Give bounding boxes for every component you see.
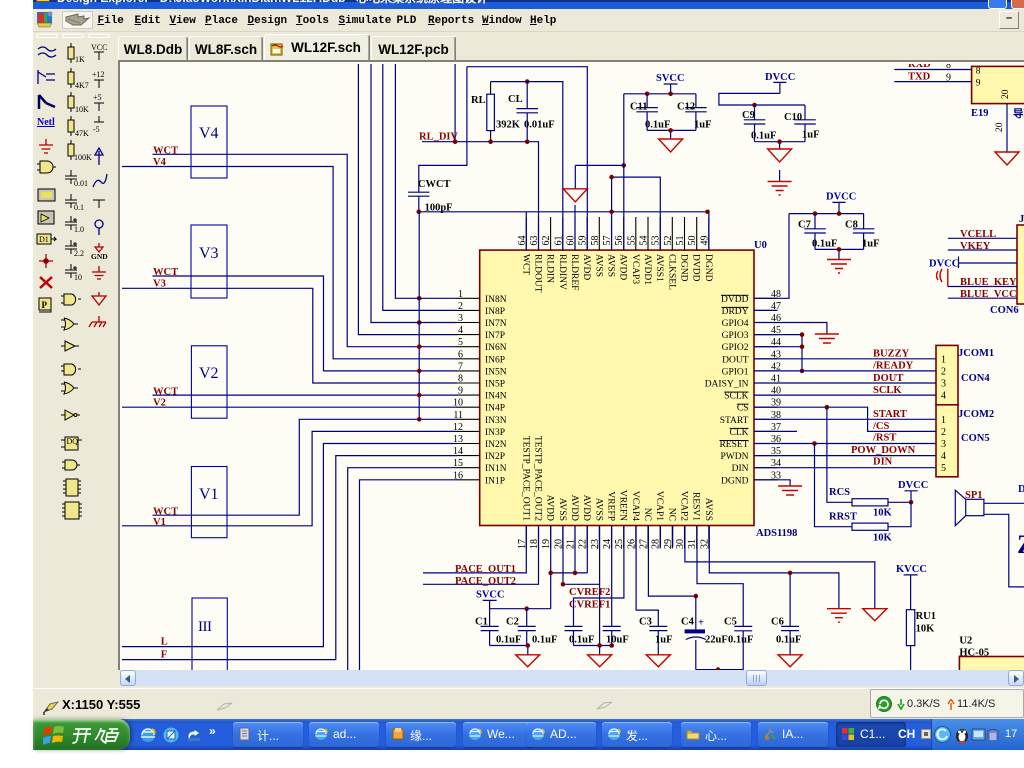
tool icon bus xyxy=(39,95,55,109)
svg-text:AVSS: AVSS xyxy=(593,498,603,521)
svg-text:NC: NC xyxy=(666,508,676,521)
svg-text:6: 6 xyxy=(458,349,463,360)
tool icon and small xyxy=(62,460,80,470)
svg-text:GND: GND xyxy=(91,252,108,261)
wire pin37 stub xyxy=(754,430,797,432)
svg-text:IN5P: IN5P xyxy=(485,380,505,390)
node junction gnd jog xyxy=(622,163,627,168)
ground earth right of C6 xyxy=(827,609,851,623)
svg-text:0.1uF: 0.1uF xyxy=(812,239,837,250)
svg-text:+5: +5 xyxy=(93,93,102,102)
svg-text:IN8P: IN8P xyxy=(485,307,505,317)
tool icon cap 0.01 xyxy=(65,170,88,188)
tool icon resistor 4K7 xyxy=(68,68,89,90)
svg-text:5: 5 xyxy=(941,463,946,474)
node junction pin45 xyxy=(800,332,805,337)
power port DVCC top xyxy=(765,72,795,93)
svg-text:AVDD: AVDD xyxy=(581,254,591,280)
svg-text:DOUT: DOUT xyxy=(722,355,749,365)
svg-text:BUZZY: BUZZY xyxy=(873,349,910,360)
svg-text:GPIO3: GPIO3 xyxy=(722,331,749,341)
svg-text:5: 5 xyxy=(458,337,463,348)
wire C11/C12 bottom rail xyxy=(647,130,696,139)
wire pin17 PACE_OUT1 xyxy=(423,526,526,573)
tool icon cap 2.2 xyxy=(65,240,84,258)
wire pin35 to CON5.4 xyxy=(754,455,936,457)
svg-text:3: 3 xyxy=(458,313,463,324)
capacitor C6 0.1uF xyxy=(709,526,839,655)
svg-text:2.2: 2.2 xyxy=(74,249,84,258)
node junction pin57 upper xyxy=(609,175,614,180)
svg-text:START: START xyxy=(720,416,749,426)
wire pin29 stub xyxy=(672,526,674,548)
ground power-gnd under C3 xyxy=(646,655,670,667)
tool icon resistor 47K xyxy=(68,116,89,138)
tool icon power gnd tri xyxy=(92,292,106,305)
tool icon or gate xyxy=(61,318,78,330)
svg-text:NC: NC xyxy=(642,508,652,521)
svg-text:2: 2 xyxy=(941,367,946,378)
wire pin3 riser xyxy=(371,64,457,323)
svg-text:51: 51 xyxy=(675,236,686,246)
svg-text:JCOM2: JCOM2 xyxy=(958,409,994,420)
tool icon cap 10 xyxy=(65,264,82,282)
node junction CL top xyxy=(525,79,530,84)
tool icon cap 1.0 xyxy=(65,216,84,234)
capacitor C7 0.1uF xyxy=(798,214,837,250)
svg-text:CON6: CON6 xyxy=(990,305,1019,316)
svg-text:4: 4 xyxy=(941,451,946,462)
svg-text:GPIO2: GPIO2 xyxy=(722,343,749,353)
wire RL/CL top rail to pin61 xyxy=(491,82,563,251)
wire VKEY row to CON6 xyxy=(948,249,1017,251)
wire DVCC rail C7/C8 xyxy=(789,213,864,215)
svg-text:KVCC: KVCC xyxy=(896,564,927,575)
tool icon earth gnd xyxy=(92,266,106,279)
svg-text:AVSS1: AVSS1 xyxy=(654,254,664,282)
wire pins57/53 link xyxy=(612,177,661,250)
capacitor C5 0.1uF xyxy=(697,526,753,646)
tool icon and gate xyxy=(61,294,81,305)
resistor RL 392K xyxy=(471,82,521,142)
svg-text:Z: Z xyxy=(1017,530,1024,559)
node junction pin49 corner xyxy=(705,210,710,215)
svg-text:V1: V1 xyxy=(153,517,166,528)
svg-text:1uF: 1uF xyxy=(862,239,880,250)
tool icon +5 xyxy=(93,93,104,111)
svg-text:CS: CS xyxy=(737,404,749,414)
svg-text:AVSS: AVSS xyxy=(593,254,603,277)
tool icon wave xyxy=(93,174,107,187)
svg-text:VKEY: VKEY xyxy=(960,241,991,252)
tool icon part D1 xyxy=(37,234,56,244)
wire pins20/23 AVSS tie xyxy=(563,526,600,646)
ground earth below DVCC xyxy=(768,170,792,195)
svg-text:GPIO4: GPIO4 xyxy=(722,319,749,329)
svg-text:VREFN: VREFN xyxy=(618,490,628,521)
svg-text:DQ: DQ xyxy=(67,437,79,446)
svg-text:0.1uF: 0.1uF xyxy=(751,131,776,142)
tool icon gate part xyxy=(37,161,56,173)
wire BLUE_KEY row to CON6 xyxy=(948,286,1017,288)
tool icon bar xyxy=(93,200,105,208)
svg-text:IN2N: IN2N xyxy=(485,440,507,450)
svg-text:SVCC: SVCC xyxy=(476,590,505,601)
svg-text:C5: C5 xyxy=(724,617,737,628)
svg-text:VCAP2: VCAP2 xyxy=(679,491,689,521)
svg-text:PACE_OUT2: PACE_OUT2 xyxy=(455,576,516,587)
tool icon GND arrow xyxy=(91,243,108,261)
tool icon bus entry xyxy=(38,70,55,84)
svg-text:III: III xyxy=(198,619,212,635)
tool icon diode pack xyxy=(38,211,54,224)
power port SVCC top xyxy=(656,73,685,94)
node junction C9/C10 gnd xyxy=(777,139,782,144)
node junction RL bottom xyxy=(488,139,493,144)
op-amp U0 ADS1198 IC body xyxy=(480,240,798,539)
node junction pin42 xyxy=(800,369,805,374)
node V4 electrode box xyxy=(191,106,227,178)
svg-text:IN4P: IN4P xyxy=(485,404,505,414)
svg-text:V2: V2 xyxy=(199,365,219,382)
wire RL_DIV riser xyxy=(454,64,456,142)
svg-text:AVDD: AVDD xyxy=(618,254,628,280)
svg-text:0.1uF: 0.1uF xyxy=(645,119,670,130)
wire pin2 riser xyxy=(383,64,457,310)
wire pins19/21/22 AVDD tie xyxy=(551,526,588,609)
tool icon resistor 100K xyxy=(68,140,92,162)
svg-text:32: 32 xyxy=(699,539,710,549)
node junction C11 top xyxy=(645,92,650,97)
svg-text:1uF: 1uF xyxy=(655,635,673,646)
node junction SVCC bar xyxy=(668,92,673,97)
svg-text:50: 50 xyxy=(687,236,698,246)
svg-text:IN7P: IN7P xyxy=(485,331,505,341)
wire pin47 stub xyxy=(754,309,778,311)
node junction C11/C12 gnd xyxy=(668,128,673,133)
svg-text:D1: D1 xyxy=(39,235,49,244)
capacitor CVREF2 0.1uF xyxy=(565,526,624,646)
svg-text:-5: -5 xyxy=(93,125,100,134)
svg-text:TXD: TXD xyxy=(908,72,931,83)
svg-text:+: + xyxy=(698,618,704,629)
tool icon power gnd xyxy=(39,139,53,153)
language + tray xyxy=(898,727,915,741)
tool icon buffer xyxy=(61,341,79,351)
svg-text:V2: V2 xyxy=(153,398,166,409)
svg-text:WCT: WCT xyxy=(520,254,530,275)
wire pin56 SVCC riser xyxy=(623,94,625,250)
node junction RCS right xyxy=(909,500,914,505)
ground earth at pin33 xyxy=(778,486,802,495)
svg-text:CVREF1: CVREF1 xyxy=(569,600,610,611)
transistor SP1 speaker xyxy=(955,490,1024,587)
wire pin16 down to sheet edge xyxy=(360,480,458,672)
svg-text:VCAP1: VCAP1 xyxy=(654,491,664,521)
node junction C9 top xyxy=(752,103,757,108)
svg-text:RLDOUT: RLDOUT xyxy=(533,254,543,293)
svg-text:VREFP: VREFP xyxy=(606,491,616,521)
svg-text:9: 9 xyxy=(976,79,981,89)
wire BLUE_VCC row to CON6 xyxy=(948,297,1017,299)
node junction pin20 xyxy=(561,582,566,587)
wire pin41 to CON4.3 xyxy=(754,382,936,384)
node junction C4 top xyxy=(694,594,699,599)
svg-text:10K: 10K xyxy=(916,624,936,635)
tool icon resistor 10K xyxy=(68,92,89,114)
toolbar column handles xyxy=(37,34,109,38)
connector CON4 xyxy=(936,345,994,404)
capacitor C9 0.1uF xyxy=(742,105,776,142)
svg-text:IN8N: IN8N xyxy=(485,295,507,305)
capacitor C1 0.1uF xyxy=(475,609,521,646)
node junction CWCT/WCT xyxy=(417,210,422,215)
svg-text:IN7N: IN7N xyxy=(485,319,507,329)
svg-text:DVDD: DVDD xyxy=(721,295,749,305)
svg-text:AVSS: AVSS xyxy=(703,498,713,521)
svg-text:TESTP_PACE_OUT2: TESTP_PACE_OUT2 xyxy=(533,436,543,521)
svg-text:J1: J1 xyxy=(1019,214,1024,225)
svg-text:CON5: CON5 xyxy=(961,433,990,444)
ground chassis marks at CON6 xyxy=(937,269,948,287)
svg-text:WCT: WCT xyxy=(153,267,178,278)
svg-text:/CS: /CS xyxy=(872,421,890,432)
svg-text:V3: V3 xyxy=(153,279,166,290)
svg-text:P: P xyxy=(42,300,48,310)
start button xyxy=(33,719,130,750)
svg-text:/RST: /RST xyxy=(872,433,896,444)
svg-text:RU1: RU1 xyxy=(916,611,936,622)
wire C7/C8 bottom rail xyxy=(815,249,864,259)
svg-text:8: 8 xyxy=(458,374,463,385)
svg-text:IN3N: IN3N xyxy=(485,416,507,426)
node E19 pin numbers xyxy=(946,60,951,83)
svg-text:RCS: RCS xyxy=(829,487,850,498)
svg-text:7: 7 xyxy=(458,361,463,372)
tool icon arrow up xyxy=(95,148,103,165)
U0 top pins 64-49 with numbers and names xyxy=(517,217,713,293)
capacitor C2 0.1uF xyxy=(506,609,557,646)
svg-text:10K: 10K xyxy=(873,533,893,544)
tool icon ic16 xyxy=(62,502,82,519)
IC U2 HC-05 bottom right xyxy=(959,636,1024,673)
svg-text:1K: 1K xyxy=(75,55,85,64)
wire pin18 PACE_OUT2 xyxy=(423,526,539,585)
svg-text:CON4: CON4 xyxy=(961,373,990,384)
wire RL_DIV rail to pin63 xyxy=(422,142,539,250)
svg-text:VCAP3: VCAP3 xyxy=(630,254,640,284)
svg-text:WCT: WCT xyxy=(153,386,178,397)
svg-text:V4: V4 xyxy=(153,157,167,168)
svg-text:DVCC: DVCC xyxy=(765,72,795,83)
svg-text:AVDD: AVDD xyxy=(569,495,579,521)
svg-text:DV: DV xyxy=(1018,484,1024,495)
svg-text:C7: C7 xyxy=(798,220,811,231)
wire E19 pin20 down xyxy=(1006,104,1008,152)
svg-text:DVCC: DVCC xyxy=(826,192,856,203)
svg-text:AVDD1: AVDD1 xyxy=(642,254,652,285)
svg-text:DVCC: DVCC xyxy=(898,480,928,491)
svg-text:VCELL: VCELL xyxy=(960,229,996,240)
svg-text:RXD: RXD xyxy=(908,64,931,70)
svg-text:1uF: 1uF xyxy=(694,119,712,130)
capacitor 10uF on pin24 xyxy=(603,526,629,646)
svg-text:C4: C4 xyxy=(681,617,695,628)
wire C9/C10 bottom rail xyxy=(755,142,806,149)
svg-text:RL: RL xyxy=(471,95,486,106)
svg-text:U2: U2 xyxy=(959,636,972,647)
svg-text:8: 8 xyxy=(976,67,981,77)
svg-text:10uF: 10uF xyxy=(606,635,629,646)
svg-text:DOUT: DOUT xyxy=(873,373,903,384)
wire VCELL row to CON6 xyxy=(948,237,1017,239)
svg-text:20: 20 xyxy=(1001,89,1011,99)
tool icon VCC xyxy=(91,43,107,60)
svg-text:58: 58 xyxy=(590,236,601,246)
svg-text:CLKSEL: CLKSEL xyxy=(666,254,676,290)
tool icon wire xyxy=(38,47,56,57)
svg-text:BLUE_KEY: BLUE_KEY xyxy=(960,277,1017,288)
svg-text:IN6P: IN6P xyxy=(485,355,505,365)
wire WCT horizontal to pins 64,50,49 xyxy=(419,212,709,250)
resistor RU1 10K xyxy=(906,610,936,672)
svg-text:RLDIN: RLDIN xyxy=(545,254,555,283)
node junction pin23 gnd xyxy=(597,643,602,648)
svg-text:CWCT: CWCT xyxy=(418,179,451,190)
svg-text:C10: C10 xyxy=(784,112,802,123)
svg-text:8: 8 xyxy=(946,64,951,71)
svg-text:C8: C8 xyxy=(845,220,858,231)
wire pin33 to earth xyxy=(754,480,790,486)
wire L to pin13 xyxy=(122,444,457,647)
svg-text:10K: 10K xyxy=(75,105,89,114)
svg-text:CVREF2: CVREF2 xyxy=(569,587,610,598)
svg-text:Netl: Netl xyxy=(37,117,55,128)
svg-text:0.01uF: 0.01uF xyxy=(524,119,555,130)
svg-text:+12: +12 xyxy=(92,70,105,79)
wire pin42 to CON4.2 xyxy=(754,370,936,372)
svg-text:WCT: WCT xyxy=(153,146,178,157)
node junction pin19 xyxy=(548,571,553,576)
power port KVCC xyxy=(896,564,927,610)
wire SVCC rail xyxy=(624,93,696,95)
svg-text:55: 55 xyxy=(626,236,637,246)
svg-text:AVSS: AVSS xyxy=(557,498,567,521)
svg-text:BLUE_VCC: BLUE_VCC xyxy=(960,289,1017,300)
svg-text:1: 1 xyxy=(458,289,463,300)
wire C4/C5 gnd rail xyxy=(696,631,743,670)
node junction RRST tap xyxy=(812,441,817,446)
ground earth at pin46 xyxy=(815,334,839,343)
svg-text:SCLK: SCLK xyxy=(724,392,748,402)
svg-text:导联: 导联 xyxy=(1013,107,1024,120)
node junction C2 bottom xyxy=(526,643,531,648)
svg-text:TESTP_PACE_OUT1: TESTP_PACE_OUT1 xyxy=(520,436,530,521)
svg-text:IN5N: IN5N xyxy=(485,367,507,377)
wire pin40 to CON4.4 xyxy=(754,394,936,396)
tool icon dff xyxy=(61,437,82,450)
svg-text:WCT: WCT xyxy=(153,506,178,517)
svg-text:10: 10 xyxy=(74,273,82,282)
svg-text:1uF: 1uF xyxy=(802,130,820,141)
svg-text:62: 62 xyxy=(541,236,552,246)
svg-text:54: 54 xyxy=(639,236,650,246)
node junction C7 top xyxy=(813,211,818,216)
capacitor C8 1uF xyxy=(845,214,880,250)
ground power-gnd left of C11 xyxy=(563,165,624,201)
svg-text:4: 4 xyxy=(941,391,946,402)
svg-text:AVDD: AVDD xyxy=(581,495,591,521)
node junction RL_DIV riser xyxy=(453,139,458,144)
wire DVCC to C9/C10 rail xyxy=(719,93,805,105)
node junction CL bottom xyxy=(525,139,530,144)
connector CON5 xyxy=(936,405,994,477)
svg-text:DAISY_IN: DAISY_IN xyxy=(705,380,749,390)
svg-text:RL_DIV: RL_DIV xyxy=(419,132,459,143)
svg-text:E19: E19 xyxy=(971,108,989,119)
ground power-gnd under C6 xyxy=(778,655,802,667)
node V3 electrode box xyxy=(191,225,227,298)
resistor RRST 10K xyxy=(815,444,912,544)
wire V4 net to pin6 xyxy=(122,167,457,359)
svg-text:F: F xyxy=(161,650,167,661)
node junction C2 top xyxy=(524,606,529,611)
wire mid gnd rail xyxy=(574,646,612,655)
svg-text:0.1uF: 0.1uF xyxy=(532,635,557,646)
svg-text:0.01: 0.01 xyxy=(74,179,88,188)
svg-text:PACE_OUT1: PACE_OUT1 xyxy=(455,564,516,575)
svg-text:C12: C12 xyxy=(677,102,695,113)
svg-text:DRDY: DRDY xyxy=(722,307,749,317)
wire CWCT bottom to WCT net xyxy=(418,196,420,212)
svg-text:2: 2 xyxy=(458,301,463,312)
wire pin15 down to sheet edge xyxy=(348,468,457,672)
svg-text:U0: U0 xyxy=(754,240,767,251)
svg-text:0.1uF: 0.1uF xyxy=(776,635,801,646)
U0 right pins 48-33 with numbers and names xyxy=(705,289,781,487)
ground power-gnd right xyxy=(863,609,887,621)
wire V3 WCT to pin7 xyxy=(153,276,458,371)
svg-text:3: 3 xyxy=(941,379,946,390)
svg-text:IN4N: IN4N xyxy=(485,392,507,402)
svg-text:20: 20 xyxy=(995,122,1005,132)
svg-text:9: 9 xyxy=(946,72,951,83)
node junction RCS tap xyxy=(825,405,830,410)
tool icon cap 0.1 xyxy=(65,194,84,212)
tool icon +12 xyxy=(92,70,105,88)
svg-text:DGND: DGND xyxy=(679,254,689,282)
ground earth under C7/C8 xyxy=(827,260,851,274)
svg-text:4K7: 4K7 xyxy=(75,81,89,90)
svg-text:RRST: RRST xyxy=(829,512,857,523)
svg-text:C6: C6 xyxy=(771,617,784,628)
svg-text:POW_DOWN: POW_DOWN xyxy=(851,445,916,456)
svg-text:DGND: DGND xyxy=(703,254,713,282)
svg-text:DIN: DIN xyxy=(732,464,749,474)
node junction DVCC bar xyxy=(837,211,842,216)
svg-text:CL: CL xyxy=(508,94,523,105)
U0 left pins 1-16 with numbers and names xyxy=(453,289,507,487)
task buttons xyxy=(233,722,303,747)
capacitor C4 22uF electrolytic xyxy=(648,526,727,670)
svg-text:IN3P: IN3P xyxy=(485,428,505,438)
ground power-gnd under C1/C2 xyxy=(516,655,540,667)
wire V2 WCT to pin9 xyxy=(153,394,458,396)
node junction C4/C5 rail xyxy=(716,667,721,672)
svg-text:1: 1 xyxy=(941,355,946,366)
svg-text:START: START xyxy=(873,409,907,420)
svg-text:SP1: SP1 xyxy=(965,490,983,501)
